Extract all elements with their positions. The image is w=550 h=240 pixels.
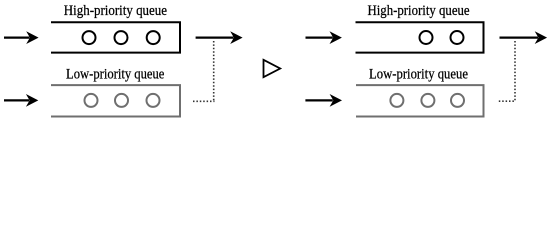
svg-text:Low-priority queue: Low-priority queue <box>369 66 468 83</box>
svg-text:High-priority queue: High-priority queue <box>368 2 470 19</box>
svg-text:Low-priority queue: Low-priority queue <box>66 66 165 83</box>
svg-text:High-priority queue: High-priority queue <box>64 2 167 19</box>
